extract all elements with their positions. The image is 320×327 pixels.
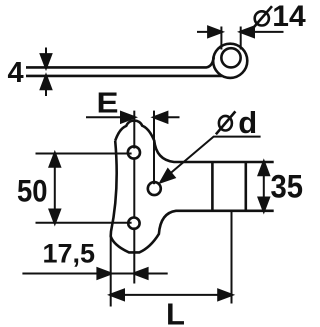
dimension E: dimension line	[86, 116, 134, 118]
dimension 4: top arrow	[45, 48, 47, 97]
front view: bottom hole	[128, 218, 139, 229]
dimension 17,5: right arrowhead	[134, 269, 147, 279]
dimension 35: top arrowhead	[259, 162, 269, 175]
dimension L: left extension line	[110, 237, 112, 307]
side view: roll outer circle	[213, 44, 247, 78]
dimension 50: top arrowhead	[50, 154, 60, 167]
svg-text:4: 4	[8, 57, 24, 89]
dimension 17,5: dimension line	[22, 273, 167, 275]
front view: centerline through holes	[133, 111, 135, 284]
dimension 50: bottom extension line	[36, 222, 132, 224]
front view: knuckle rectangle right edge	[245, 162, 248, 211]
side view: strip top line	[26, 57, 214, 67]
label o14: diameter symbol	[255, 11, 269, 25]
svg-text:14: 14	[272, 0, 306, 33]
dimension L: right extension line	[231, 212, 233, 304]
dimension od: leader arrowhead	[158, 170, 174, 186]
dimension 50: dimension line	[54, 154, 56, 223]
dimension 35: dimension line	[263, 162, 265, 211]
dimension 50: top extension line	[36, 153, 132, 155]
svg-text:50: 50	[17, 173, 48, 209]
side view: roll inner hole circle	[221, 48, 240, 67]
dimension o14: extension lines	[197, 27, 284, 50]
dimension 35: bottom arrowhead	[259, 198, 269, 211]
dimension L: left arrowhead	[111, 290, 124, 300]
svg-text:E: E	[97, 87, 119, 119]
dimension E: right extension line down to middle hole center	[153, 111, 155, 185]
svg-text:17,5: 17,5	[43, 239, 96, 269]
dimension o14: right arrowhead	[241, 27, 254, 37]
front view: knuckle rectangle left edge	[211, 162, 214, 211]
dimension L: dimension line	[111, 294, 232, 296]
svg-text:d: d	[238, 105, 257, 140]
dimension 50: bottom arrowhead	[50, 210, 60, 223]
front view: plate outline	[111, 121, 274, 253]
label od: diameter symbol	[219, 116, 232, 131]
dimension od: leader line	[161, 137, 261, 182]
dimension o14: dimension line	[197, 31, 221, 33]
dimension E: right arrowhead	[154, 112, 167, 122]
dimension E: left arrowhead	[121, 112, 134, 122]
side view: strip bottom line	[26, 75, 222, 78]
dimension 17,5: left arrowhead	[98, 269, 111, 279]
front view: top hole	[128, 146, 140, 158]
svg-text:L: L	[166, 297, 185, 327]
dimension 4: bottom arrow	[41, 76, 51, 89]
front view: middle hole od	[148, 182, 161, 195]
dimension o14: left arrowhead	[208, 27, 221, 37]
dimension L: right arrowhead	[219, 290, 232, 300]
svg-text:35: 35	[271, 169, 304, 205]
